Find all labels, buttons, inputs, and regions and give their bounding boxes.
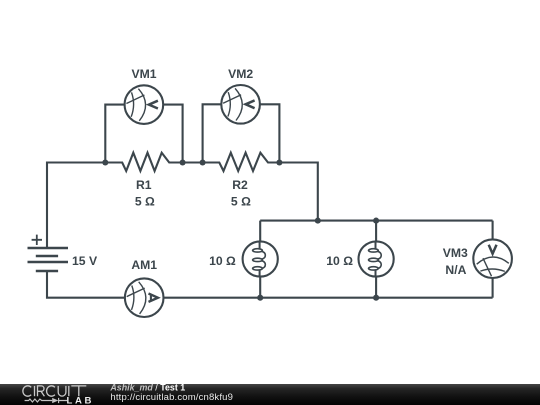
svg-text:15 V: 15 V xyxy=(72,254,98,268)
junction node feed on top bus xyxy=(315,218,321,224)
wire VM3 bottom stem xyxy=(492,278,494,298)
wire battery negative to bottom bus xyxy=(47,271,125,298)
junction node R2 right / VM2 right xyxy=(276,159,282,165)
svg-text:5 Ω: 5 Ω xyxy=(231,194,251,208)
wire lamp L1 bottom stem xyxy=(259,276,261,297)
resistor R1 xyxy=(105,153,182,171)
junction node lamp L2 bottom xyxy=(373,295,379,301)
svg-text:5 Ω: 5 Ω xyxy=(135,194,155,208)
svg-text:VM2: VM2 xyxy=(228,67,253,81)
voltmeter VM2 xyxy=(221,85,260,124)
svg-text:N/A: N/A xyxy=(445,263,466,277)
label VM1 xyxy=(131,67,156,81)
junction node A (battery/VM1/R1) xyxy=(102,159,108,165)
label AM1 xyxy=(131,258,157,272)
wire VM2 right loop xyxy=(260,104,279,162)
lamp L2 xyxy=(359,241,394,276)
label VM3 xyxy=(443,246,468,260)
CircuitLab logo text LAB xyxy=(67,396,95,405)
value label R1 5 ohm xyxy=(135,194,155,208)
svg-text:10 Ω: 10 Ω xyxy=(326,254,353,268)
label R2 xyxy=(232,178,248,192)
svg-text:VM3: VM3 xyxy=(443,246,468,260)
label R1 xyxy=(136,178,152,192)
wire node B between R1 and R2 xyxy=(183,161,203,163)
wire lamp L2 top stem xyxy=(375,221,377,242)
CircuitLab logo text CIRCUIT (thin stroked letterforms) xyxy=(23,386,86,396)
value label lamp L1 10 ohm xyxy=(209,254,236,268)
wire feed from R2 to top bus xyxy=(279,163,317,221)
junction node R1 right / VM1 right xyxy=(180,159,186,165)
resistor R2 xyxy=(203,153,280,171)
wire VM1 left loop xyxy=(105,105,124,163)
CircuitLab logo squiggle (resistor + diode) xyxy=(25,398,68,403)
junction node lamp L1 bottom xyxy=(257,295,263,301)
value label VM3 N/A xyxy=(445,263,466,277)
svg-text:AM1: AM1 xyxy=(131,258,157,272)
svg-text:LAB: LAB xyxy=(67,396,95,405)
wire battery positive to node A xyxy=(47,163,105,249)
svg-text:10 Ω: 10 Ω xyxy=(209,254,236,268)
wire lamp L1 top stem xyxy=(259,221,261,242)
svg-text:http://circuitlab.com/cn8kfu9: http://circuitlab.com/cn8kfu9 xyxy=(110,392,233,403)
wire VM2 left loop xyxy=(203,104,222,162)
battery value label 15 V xyxy=(72,254,98,268)
svg-text:R2: R2 xyxy=(232,178,248,192)
junction node lamp L2 top xyxy=(373,218,379,224)
wire top bus xyxy=(260,220,492,222)
footer title Ashik_md / Test 1 xyxy=(109,383,185,393)
battery V1 15V xyxy=(28,235,69,271)
voltmeter VM1 xyxy=(125,85,164,124)
value label lamp L2 10 ohm xyxy=(326,254,353,268)
voltmeter VM3 xyxy=(473,239,512,278)
junction node R2 left / VM2 left xyxy=(200,159,206,165)
svg-text:R1: R1 xyxy=(136,178,152,192)
footer url xyxy=(110,392,233,403)
ammeter AM1 xyxy=(125,278,164,317)
wire VM1 right loop xyxy=(163,105,182,163)
value label R2 5 ohm xyxy=(231,194,251,208)
footer bar xyxy=(0,384,540,405)
label VM2 xyxy=(228,67,253,81)
lamp L1 xyxy=(243,241,278,276)
wire VM3 top stem xyxy=(492,221,494,240)
wire lamp L2 bottom stem xyxy=(375,276,377,297)
wire bottom bus xyxy=(164,297,493,299)
svg-text:VM1: VM1 xyxy=(131,67,156,81)
